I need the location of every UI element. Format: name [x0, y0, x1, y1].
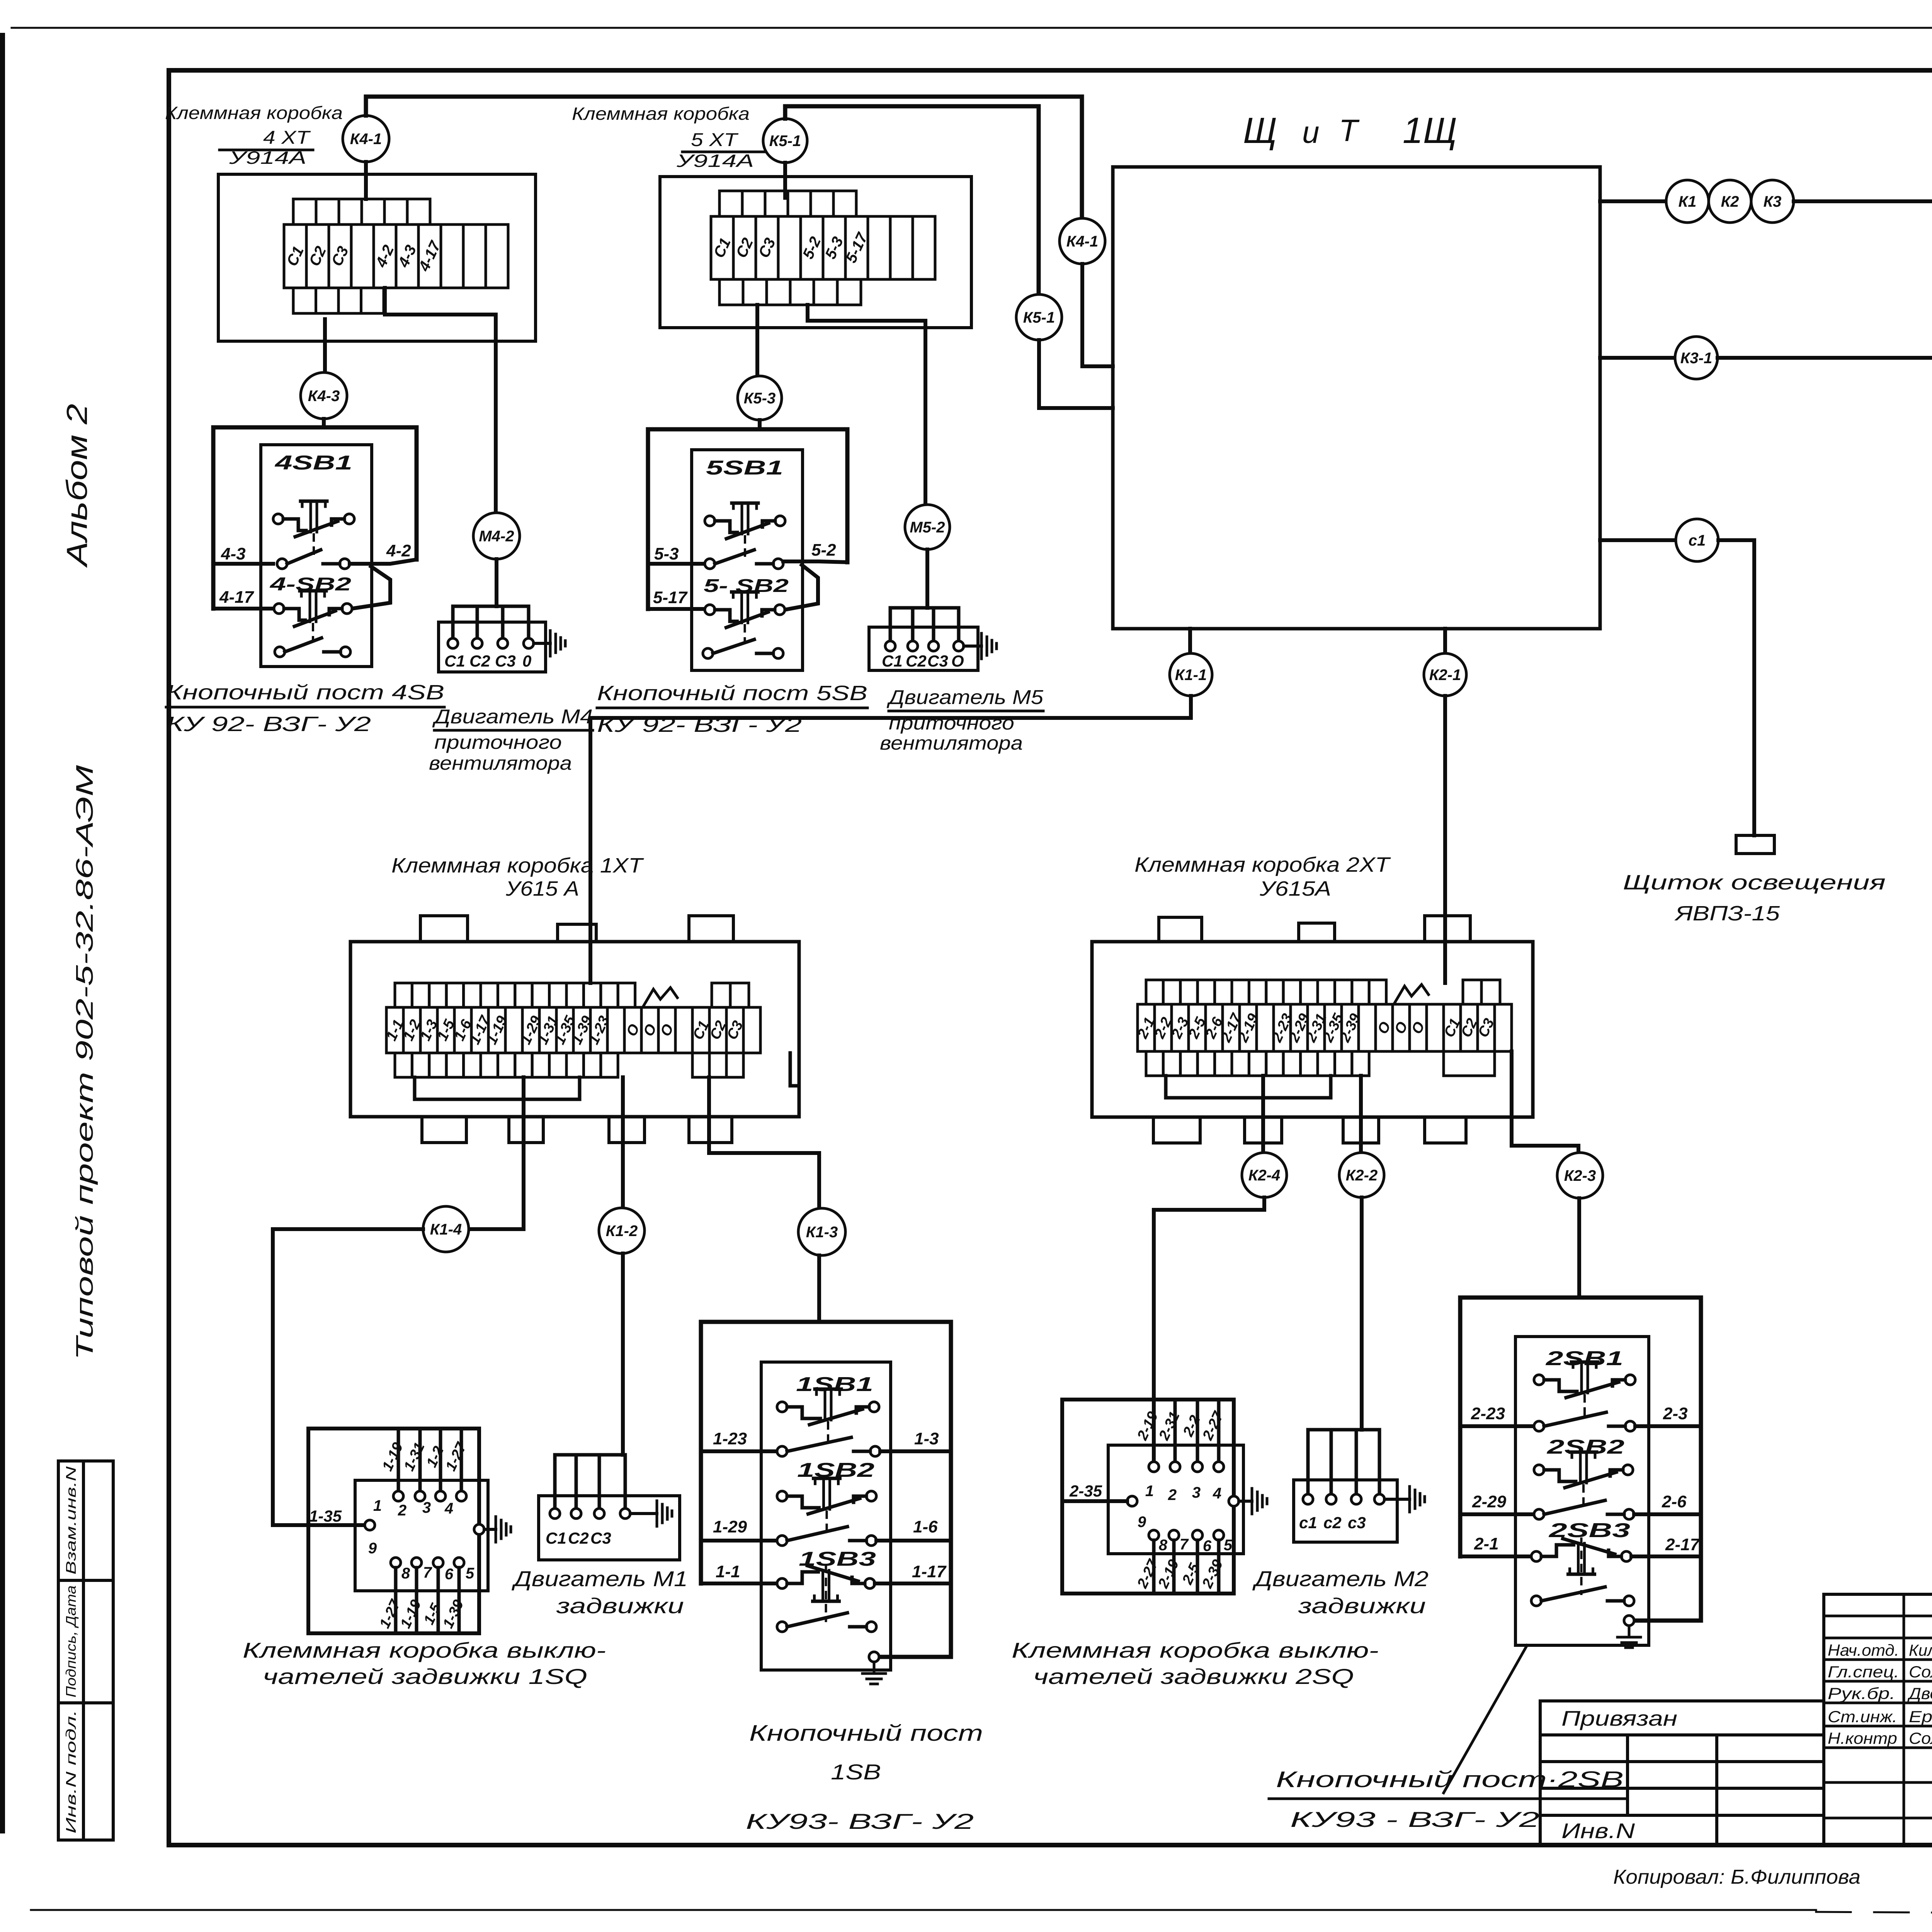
- 1SQ right ground contact: [474, 1524, 484, 1534]
- svg-text:Кильметов: Кильметов: [1909, 1641, 1932, 1659]
- pushbutton post 4SB outer wiring frame: [213, 427, 417, 609]
- svg-text:1-6: 1-6: [913, 1517, 938, 1536]
- wire 1-29: [701, 1539, 777, 1543]
- svg-text:9: 9: [1138, 1514, 1146, 1531]
- node M5-2 circle: [905, 505, 950, 549]
- terminal box 5XT: [660, 177, 971, 328]
- wire 5-17: [648, 607, 705, 611]
- svg-text:У914А: У914А: [229, 148, 306, 168]
- node C1 circle: [1676, 519, 1718, 561]
- svg-text:задвижки: задвижки: [556, 1594, 684, 1618]
- mounting tabs 1XT bottom: [422, 1117, 466, 1143]
- pushbutton post 4SB inner box: [261, 445, 372, 667]
- motor M5 terminal box: [869, 627, 978, 670]
- svg-text:приточного: приточного: [434, 731, 562, 753]
- svg-text:1: 1: [1145, 1483, 1154, 1500]
- svg-text:5SB1: 5SB1: [706, 457, 783, 479]
- wire 1-23: [701, 1449, 777, 1453]
- mounting tabs 2XT top: [1159, 917, 1202, 942]
- svg-text:Т: Т: [1339, 113, 1360, 148]
- svg-text:с1: с1: [1299, 1514, 1317, 1532]
- svg-text:С2: С2: [568, 1529, 589, 1547]
- wire panel to K2-1: [1443, 629, 1447, 653]
- switch 5SB bottom contact: [703, 648, 713, 658]
- svg-text:О: О: [951, 652, 964, 670]
- switch 1SB NO contact 1: [777, 1446, 787, 1456]
- left stamp table: [58, 1461, 113, 1840]
- svg-text:Кнопочный пост 4SB: Кнопочный пост 4SB: [166, 681, 444, 704]
- wire M5-2 to motor: [925, 549, 929, 608]
- motor M4 terminal box: [439, 622, 546, 672]
- 1SQ upper stubs: [397, 1430, 400, 1492]
- switch 4SB bottom contact: [275, 647, 285, 657]
- svg-text:и: и: [1302, 115, 1320, 150]
- svg-text:К2-3: К2-3: [1564, 1167, 1596, 1184]
- motor M2 ground: [1384, 1498, 1410, 1501]
- motor M4 ground: [534, 642, 550, 645]
- wire panel K3-1 out: [1600, 356, 1675, 360]
- svg-text:С1: С1: [444, 652, 465, 670]
- svg-text:1SB1: 1SB1: [796, 1373, 873, 1396]
- svg-text:К3: К3: [1764, 193, 1782, 210]
- svg-text:2-17: 2-17: [1665, 1535, 1701, 1554]
- mounting tabs 2XT bottom: [1153, 1117, 1200, 1143]
- wire K1-4 to 1SQ: [273, 1229, 423, 1525]
- svg-text:1SВ: 1SВ: [831, 1760, 881, 1784]
- node K2-3 circle: [1557, 1153, 1603, 1198]
- svg-text:К2: К2: [1721, 193, 1739, 210]
- svg-text:Привязан: Привязан: [1561, 1706, 1677, 1730]
- svg-text:с2: с2: [1323, 1514, 1342, 1532]
- svg-text:Клеммная коробка: Клеммная коробка: [165, 103, 343, 123]
- svg-text:4: 4: [1213, 1485, 1221, 1502]
- wire C1 to lighting box: [1718, 540, 1754, 835]
- wire K5-1 to strip: [783, 163, 787, 198]
- svg-text:К1: К1: [1679, 193, 1697, 210]
- node K1-3 circle: [798, 1208, 845, 1255]
- wire 2XT to K2-4: [1261, 1076, 1265, 1153]
- wire 4-2 jog: [350, 560, 417, 564]
- switch 4-SB2 pushbutton: [274, 604, 284, 614]
- wire 1-6: [876, 1539, 951, 1543]
- wire K1-1 to 1XT: [590, 696, 1191, 983]
- svg-text:Копировал: Б.Филиппова: Копировал: Б.Филиппова: [1613, 1866, 1861, 1888]
- wire K4-1 run to panel: [366, 97, 1082, 218]
- wire K3-1 to 3XT box: [1718, 358, 1932, 572]
- svg-text:Соловьева: Соловьева: [1909, 1663, 1932, 1681]
- svg-text:С1: С1: [882, 652, 903, 670]
- svg-text:Подпись, Дата: Подпись, Дата: [63, 1585, 79, 1697]
- svg-text:4SB1: 4SB1: [274, 452, 352, 474]
- svg-text:Клеммная коробка 2ХТ: Клеммная коробка 2ХТ: [1134, 853, 1391, 876]
- 2SQ right ground contact: [1229, 1496, 1239, 1506]
- outer thin border top: [12, 27, 1932, 29]
- svg-text:4-17: 4-17: [219, 588, 255, 607]
- svg-text:0: 0: [522, 652, 531, 670]
- wire 5-2 jog: [783, 561, 847, 562]
- svg-text:1Щ: 1Щ: [1403, 110, 1457, 151]
- svg-text:КУ 92- ВЗГ- У2: КУ 92- ВЗГ- У2: [166, 713, 371, 736]
- svg-text:Щиток освещения: Щиток освещения: [1623, 871, 1886, 894]
- svg-text:8: 8: [1159, 1537, 1168, 1554]
- svg-text:У615А: У615А: [1259, 877, 1331, 900]
- terminal box 2SQ inner: [1108, 1445, 1243, 1554]
- svg-text:Инв.N: Инв.N: [1561, 1819, 1635, 1843]
- wire to dispatcher board: [1794, 199, 1932, 203]
- title block privyazan table: [1540, 1699, 1824, 1702]
- 1SQ lower stubs: [394, 1568, 398, 1633]
- switch 2SB bottom contact: [1531, 1596, 1541, 1606]
- svg-text:Ст.инж.: Ст.инж.: [1828, 1708, 1897, 1726]
- svg-text:вентилятора: вентилятора: [880, 732, 1023, 754]
- node K3-1 circle: [1675, 337, 1718, 379]
- node K2-2 circle: [1339, 1153, 1384, 1197]
- svg-text:К5-1: К5-1: [1023, 309, 1055, 326]
- 2SQ contact 9: [1127, 1496, 1137, 1506]
- svg-text:Двигатель М4: Двигатель М4: [432, 706, 593, 728]
- svg-text:5: 5: [466, 1565, 474, 1582]
- wire 1XT to K1-3: [709, 1077, 819, 1208]
- svg-text:3: 3: [1192, 1484, 1201, 1501]
- svg-text:Двигатель М2: Двигатель М2: [1252, 1566, 1429, 1591]
- terminal box 4XT: [218, 174, 536, 341]
- terminal strip 5XT: [711, 216, 733, 279]
- motor M1 ground: [630, 1512, 657, 1515]
- svg-text:2-29: 2-29: [1472, 1492, 1507, 1511]
- svg-text:5-2: 5-2: [811, 541, 836, 560]
- svg-text:С2: С2: [469, 652, 490, 670]
- title block signature table: [1824, 1594, 1932, 1845]
- svg-text:с3: с3: [1348, 1514, 1366, 1532]
- terminal box 1SQ outer: [308, 1429, 479, 1633]
- wire 1-17: [875, 1582, 951, 1585]
- node K2-1 circle: [1424, 653, 1466, 696]
- 2SB ground contact: [1624, 1616, 1634, 1626]
- motor M1 feed bus: [555, 1455, 625, 1514]
- pushbutton post 2SB inner box: [1515, 1337, 1649, 1645]
- node K2-4 circle: [1242, 1153, 1287, 1197]
- node K5-3 circle: [738, 376, 782, 420]
- wire 2-35: [1062, 1499, 1127, 1503]
- svg-text:Типовой проект 902-5-32.86-АЭМ: Типовой проект 902-5-32.86-АЭМ: [71, 765, 98, 1360]
- pushbutton post 2SB outer wiring frame: [1460, 1298, 1701, 1621]
- svg-text:Соловьева: Соловьева: [1909, 1729, 1932, 1747]
- svg-text:5-3: 5-3: [654, 544, 679, 563]
- switch 2SB3 pushbutton mirrored: [1531, 1551, 1541, 1561]
- node K1-2 circle: [599, 1208, 645, 1253]
- svg-text:Клеммная коробка 1ХТ: Клеммная коробка 1ХТ: [391, 854, 644, 877]
- pushbutton post 1SB outer wiring frame: [701, 1322, 951, 1657]
- node K3 circle: [1751, 180, 1794, 223]
- svg-text:3: 3: [422, 1499, 431, 1516]
- pushbutton post 1SB inner box: [761, 1362, 891, 1670]
- svg-text:2-3: 2-3: [1663, 1404, 1688, 1423]
- pushbutton post 5SB outer wiring frame: [648, 429, 847, 609]
- wire 4-3: [213, 562, 273, 566]
- wire K2-3 to 2SB: [1577, 1198, 1581, 1298]
- wire 2-17: [1631, 1554, 1701, 1558]
- svg-text:Дворников: Дворников: [1907, 1684, 1932, 1702]
- wire K2-2 to M2: [1360, 1197, 1364, 1430]
- svg-text:2: 2: [1168, 1486, 1177, 1503]
- svg-text:К2-2: К2-2: [1346, 1167, 1378, 1184]
- svg-text:У914А: У914А: [676, 151, 754, 171]
- svg-text:С1: С1: [546, 1529, 566, 1547]
- svg-text:К2-1: К2-1: [1429, 667, 1461, 684]
- terminal box 2XT: [1092, 942, 1533, 1117]
- terminal strip 2XT: [1138, 1004, 1155, 1051]
- svg-text:1-17: 1-17: [912, 1562, 947, 1581]
- 1SQ upper contacts: [393, 1491, 403, 1501]
- svg-text:4 ХТ: 4 ХТ: [263, 128, 311, 148]
- wire 2-3: [1635, 1424, 1701, 1428]
- svg-text:КУ93- ВЗГ- У2: КУ93- ВЗГ- У2: [746, 1809, 974, 1833]
- motor M2 terminal box: [1294, 1480, 1397, 1542]
- svg-text:2-23: 2-23: [1471, 1404, 1505, 1423]
- svg-text:Клеммная коробка выклю-: Клеммная коробка выклю-: [1012, 1638, 1379, 1662]
- node K1-1 circle: [1170, 653, 1212, 696]
- svg-text:Нач.отд.: Нач.отд.: [1828, 1641, 1899, 1659]
- node K2 circle: [1709, 180, 1751, 223]
- svg-text:4-2: 4-2: [386, 541, 411, 560]
- switch 2SB NO contact 2: [1534, 1509, 1544, 1519]
- wire K1-3 to 1SB: [817, 1255, 821, 1322]
- wire K5-3 to 5SB: [758, 420, 762, 429]
- svg-text:4: 4: [444, 1500, 453, 1517]
- svg-text:К1-3: К1-3: [806, 1224, 838, 1241]
- svg-text:М5-2: М5-2: [910, 519, 945, 536]
- node K5-1 top circle: [763, 119, 807, 163]
- svg-text:4-3: 4-3: [221, 544, 246, 563]
- wire K4-1 to strip: [364, 162, 368, 199]
- svg-text:Двигатель М1: Двигатель М1: [511, 1566, 688, 1591]
- svg-text:Рук.бр.: Рук.бр.: [1828, 1684, 1895, 1702]
- scan left edge strip: [0, 33, 5, 1833]
- svg-text:2-35: 2-35: [1069, 1482, 1102, 1500]
- switch 5SB1 pushbutton: [705, 516, 715, 526]
- svg-text:К4-1: К4-1: [350, 131, 382, 148]
- svg-text:ЯВПЗ-15: ЯВПЗ-15: [1674, 902, 1780, 925]
- svg-text:1-1: 1-1: [716, 1562, 740, 1581]
- svg-text:К5-3: К5-3: [744, 390, 776, 407]
- motor M5 ground: [964, 645, 981, 648]
- svg-text:К1-4: К1-4: [430, 1221, 462, 1238]
- svg-text:С3: С3: [590, 1529, 611, 1547]
- wire 2XT to K2-3: [1512, 1051, 1578, 1153]
- 2SQ upper contacts: [1149, 1462, 1159, 1472]
- wire K5-1 into panel: [1039, 340, 1113, 408]
- wire K2-4 to 2SQ: [1154, 1197, 1264, 1462]
- pushbutton post 5SB inner box: [692, 450, 803, 670]
- outer thin border bottom: [31, 1909, 1816, 1911]
- wire 1XT to K1-2: [621, 1077, 625, 1208]
- terminal box 1XT: [350, 942, 799, 1117]
- 2SQ lower contacts: [1149, 1530, 1159, 1540]
- wire K2-1 to 2XT: [1443, 696, 1447, 983]
- wire 2-1: [1460, 1554, 1531, 1558]
- terminal box 1SQ inner: [355, 1480, 488, 1591]
- wire 1-1: [701, 1582, 777, 1585]
- svg-text:Клеммная коробка выклю-: Клеммная коробка выклю-: [243, 1638, 606, 1662]
- svg-text:7: 7: [423, 1564, 432, 1581]
- leader line to 2SB label: [1444, 1645, 1527, 1793]
- svg-text:М4-2: М4-2: [479, 528, 514, 545]
- switch 1SB NO contact 2: [777, 1536, 787, 1546]
- svg-text:Альбом 2: Альбом 2: [61, 404, 93, 568]
- svg-text:С3: С3: [927, 652, 948, 670]
- svg-text:Щ: Щ: [1243, 110, 1277, 151]
- wire K4-3 to 4SB: [322, 419, 326, 427]
- svg-text:Ермаков: Ермаков: [1909, 1708, 1932, 1726]
- svg-text:с1: с1: [1689, 532, 1706, 549]
- svg-text:1-3: 1-3: [914, 1429, 939, 1448]
- switch 1SB bottom contact: [777, 1622, 787, 1632]
- 1SQ contact 9: [365, 1520, 375, 1530]
- wire 5XT to M5-2: [808, 305, 925, 505]
- 2SQ lower stubs: [1152, 1540, 1156, 1594]
- lighting panel box: [1736, 835, 1774, 854]
- svg-text:5 ХТ: 5 ХТ: [691, 130, 739, 150]
- switch 5SB NO contact: [705, 559, 715, 569]
- svg-text:1-35: 1-35: [309, 1507, 342, 1525]
- svg-text:С3: С3: [495, 652, 516, 670]
- svg-text:К5-1: К5-1: [769, 133, 801, 150]
- node K4-3 circle: [301, 372, 347, 419]
- svg-text:К3-1: К3-1: [1680, 350, 1712, 367]
- svg-text:2: 2: [398, 1502, 406, 1519]
- motor M5 feed bus: [890, 608, 959, 646]
- svg-text:7: 7: [1180, 1536, 1189, 1553]
- svg-text:приточного: приточного: [889, 712, 1014, 734]
- 2SQ upper stubs: [1173, 1401, 1177, 1462]
- wire panel to K1-1: [1188, 629, 1192, 653]
- motor M4 feed bus: [453, 606, 529, 643]
- wire 1XT to K1-4: [522, 1077, 526, 1229]
- svg-text:Клеммная коробка: Клеммная коробка: [572, 104, 750, 124]
- svg-text:С2: С2: [906, 652, 927, 670]
- wire 4XT to M4-2: [385, 288, 496, 513]
- wire K4-1 into panel: [1082, 264, 1113, 366]
- wire 5XT to K5-3: [755, 305, 759, 376]
- svg-text:Гл.спец.: Гл.спец.: [1828, 1663, 1899, 1681]
- svg-text:вентилятора: вентилятора: [429, 752, 572, 774]
- switch 2SB NO contact 1: [1534, 1421, 1544, 1431]
- node K1 circle: [1666, 180, 1709, 223]
- node M4-2 circle: [473, 513, 520, 559]
- switch 4SB1 pushbutton: [273, 514, 283, 524]
- wire 1-3: [880, 1449, 951, 1453]
- wire jumper inside 1XT: [415, 1098, 580, 1101]
- node K1-4 circle: [423, 1206, 469, 1252]
- wire 5-3: [648, 562, 705, 566]
- switch 2SB2 pushbutton: [1534, 1465, 1544, 1475]
- svg-text:2-1: 2-1: [1474, 1534, 1499, 1553]
- svg-text:2-6: 2-6: [1662, 1492, 1687, 1511]
- svg-text:6: 6: [445, 1566, 454, 1583]
- wire 2-23: [1460, 1424, 1534, 1428]
- svg-text:9: 9: [368, 1540, 377, 1557]
- svg-text:1-29: 1-29: [713, 1517, 747, 1536]
- terminal box 2SQ outer: [1062, 1400, 1234, 1594]
- 1SQ lower contacts: [391, 1558, 401, 1568]
- wire 2-29: [1460, 1512, 1534, 1516]
- svg-text:2SB1: 2SB1: [1545, 1347, 1623, 1370]
- svg-text:чателей задвижки 1SQ: чателей задвижки 1SQ: [263, 1664, 587, 1689]
- svg-text:1-23: 1-23: [713, 1429, 747, 1448]
- node K4-1 second circle: [1060, 218, 1105, 264]
- svg-text:К4-1: К4-1: [1066, 233, 1098, 250]
- svg-text:Кнопочный пост 5SВ: Кнопочный пост 5SВ: [597, 682, 867, 705]
- 1SB ground contact: [869, 1652, 879, 1662]
- svg-text:Взам.инв.N: Взам.инв.N: [63, 1466, 79, 1575]
- terminal strip 4XT: [284, 224, 306, 288]
- svg-text:Н.контр: Н.контр: [1828, 1729, 1897, 1747]
- wire 2-6: [1634, 1512, 1701, 1516]
- svg-text:6: 6: [1203, 1537, 1212, 1554]
- wire 4XT to K4-3: [323, 319, 327, 372]
- node K5-1 second circle: [1016, 294, 1062, 340]
- wire jumper inside 2XT: [1166, 1096, 1331, 1100]
- switch 1SB2 pushbutton: [777, 1491, 787, 1501]
- mounting tabs 1XT top: [420, 916, 468, 942]
- svg-text:К2-4: К2-4: [1248, 1167, 1280, 1184]
- switch 1SB3 pushbutton mirrored: [777, 1578, 787, 1588]
- wire panel C1 out: [1600, 538, 1676, 542]
- svg-text:8: 8: [401, 1565, 410, 1582]
- svg-text:чателей задвижки 2SQ: чателей задвижки 2SQ: [1033, 1664, 1354, 1689]
- svg-text:5: 5: [1224, 1537, 1233, 1554]
- break mark 1XT: [643, 988, 677, 1006]
- switch 5-SB2 pushbutton: [705, 605, 715, 615]
- panel box Shchit 1Shch: [1113, 167, 1600, 629]
- break mark 2XT: [1395, 985, 1429, 1003]
- svg-text:К1-1: К1-1: [1175, 667, 1207, 684]
- motor M1 terminal box: [539, 1496, 680, 1560]
- wire 2XT to K2-2: [1359, 1076, 1363, 1153]
- wire 1XT C cells to box edge: [790, 1053, 799, 1086]
- node K4-1 top circle: [343, 116, 389, 162]
- svg-text:К1-2: К1-2: [606, 1223, 638, 1240]
- wire K5-1 run to panel: [785, 106, 1039, 294]
- switch 4SB NO contact: [277, 559, 287, 569]
- switch 2SB1 pushbutton: [1534, 1375, 1544, 1385]
- svg-text:КУ93 - ВЗГ- У2: КУ93 - ВЗГ- У2: [1290, 1807, 1539, 1832]
- svg-text:У615 А: У615 А: [505, 877, 579, 900]
- terminal strip 1XT: [386, 1007, 403, 1053]
- svg-text:К4-3: К4-3: [308, 388, 340, 405]
- wire 4-17: [213, 607, 274, 611]
- svg-text:5-17: 5-17: [653, 588, 688, 607]
- svg-text:Инв.N подл.: Инв.N подл.: [63, 1710, 79, 1833]
- wire K1-2 to M1: [621, 1253, 625, 1455]
- wire M4-2 to motor: [495, 559, 498, 606]
- wire panel to dispatcher: [1600, 199, 1666, 203]
- svg-text:2SВ3: 2SВ3: [1548, 1519, 1630, 1542]
- svg-text:1: 1: [373, 1497, 382, 1514]
- switch 1SB1 pushbutton: [777, 1402, 787, 1412]
- motor M2 feed bus: [1308, 1430, 1379, 1499]
- svg-text:Кнопочный пост: Кнопочный пост: [749, 1721, 983, 1746]
- svg-text:Двигатель М5: Двигатель М5: [886, 686, 1044, 709]
- svg-text:задвижки: задвижки: [1298, 1594, 1426, 1618]
